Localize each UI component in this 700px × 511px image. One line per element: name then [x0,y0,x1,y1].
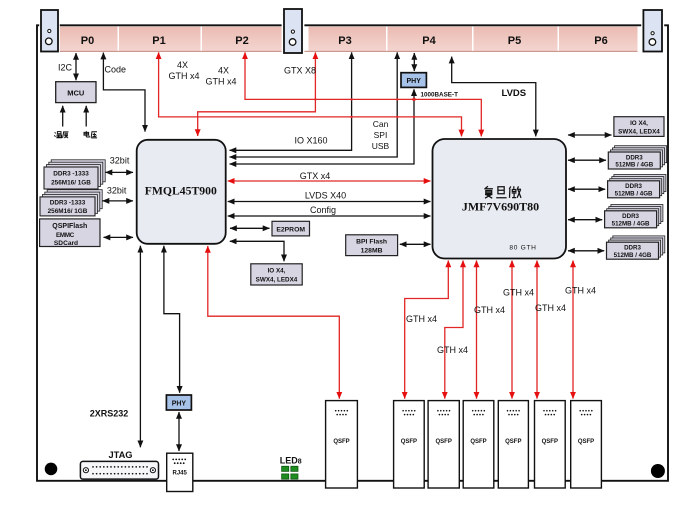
svg-text:EMMC: EMMC [56,232,75,239]
svg-text:GTX X8: GTX X8 [284,66,316,76]
DDR3 bank E stack (right 3) [605,205,663,228]
svg-text:GTH x4: GTH x4 [406,314,437,324]
wire LVDS P4 to JMF [452,57,536,137]
label dianya (voltage) [84,131,97,138]
BPI Flash U5 [346,235,398,256]
svg-text:DDR3: DDR3 [622,213,639,220]
E2PROM U4 [272,221,310,236]
mounting hole bottom-right [651,464,665,478]
svg-text:QSFP: QSFP [505,439,521,445]
svg-text:SWX4, LEDX4: SWX4, LEDX4 [256,276,298,283]
label wendu (temperature) [54,132,68,138]
svg-text:1000BASE-T: 1000BASE-T [421,91,459,98]
svg-text:SDCard: SDCard [54,240,78,247]
svg-text:4X: 4X [218,66,229,76]
svg-text:P6: P6 [594,35,607,47]
svg-text:E2PROM: E2PROM [276,226,305,233]
QSFP cage 4 [463,401,494,488]
svg-text:QSFP: QSFP [436,439,452,445]
DDR3 bank C stack (right 1) [608,146,666,169]
svg-text:QSFP: QSFP [542,439,558,445]
wire GTX X8 P3 to FMQL (red) [198,52,316,136]
svg-text:IO X160: IO X160 [295,136,328,146]
wire IO X160 P3 to FMQL [230,52,352,150]
svg-text:512MB / 4GB: 512MB / 4GB [614,252,652,259]
RJ45 connector [167,453,193,491]
PHY U2 (top) [401,73,426,88]
wire JMF to DDR3 bank F [568,250,604,252]
DDR3 bank A stack [44,160,105,189]
mounting tab connector J1 (top left) [39,8,60,53]
DDR3 bank F stack (right 4) [607,236,665,259]
wire FMQL to PHY2 [164,246,180,393]
wire QSFP5 to JMF (red) [511,261,513,399]
svg-text:512MB / 4GB: 512MB / 4GB [612,220,650,227]
svg-text:P3: P3 [338,35,351,47]
wire JMF to DDR3 bank C [568,159,606,161]
wire JMF to IO/SW/LED block (right) [568,134,612,136]
svg-text:DDR3: DDR3 [625,183,642,190]
svg-text:FMQL45T900: FMQL45T900 [145,185,217,198]
MCU U1 [56,82,96,103]
svg-text:32bit: 32bit [110,156,130,166]
JTAG connector [80,461,158,479]
svg-text:GTH x4: GTH x4 [535,303,566,313]
svg-text:JMF7V690T80: JMF7V690T80 [462,199,539,213]
wire voltage sensor to MCU [85,106,87,127]
mounting tab connector J3 (top right) [641,8,664,53]
svg-text:Config: Config [310,205,336,215]
svg-text:QSFP: QSFP [401,439,417,445]
wire 2XRS232 from FMQL [139,246,141,447]
svg-text:QSFP: QSFP [470,439,486,445]
svg-text:GTH x4: GTH x4 [168,71,199,81]
wire LVDS X40 FMQL-JMF [228,201,431,203]
wire P4 to FMQL [230,52,398,157]
svg-text:IO X4,: IO X4, [268,267,286,274]
wire FMQL to IO/SW/LED block [230,241,284,261]
svg-text:GTH x4: GTH x4 [205,77,236,87]
svg-text:QSPIFlash: QSPIFlash [52,223,87,230]
svg-text:2XRS232: 2XRS232 [90,409,129,419]
connector bar segment P0 [58,27,118,51]
wire temperature sensor to MCU [62,106,64,127]
wire QSFP3 to JMF (red) [445,261,463,399]
junction dots on red nets [314,98,416,118]
svg-text:DDR3 -1333: DDR3 -1333 [50,200,86,207]
svg-text:LVDS X40: LVDS X40 [305,191,346,201]
mounting tab connector J2 (top middle) [282,7,305,55]
wire GTX x4 FMQL-JMF (red) [228,180,431,182]
wire I2C P0-MCU [75,53,77,80]
wire JMF to DDR3 bank D [568,188,605,190]
wire Code P0-FPGA [103,53,145,132]
svg-text:Can: Can [373,119,389,129]
DDR3 bank B stack [40,190,102,216]
svg-text:P4: P4 [422,35,436,47]
connector bar segment P5 [474,27,558,51]
svg-text:DDR3: DDR3 [624,245,641,252]
wire FMQL to E2PROM [230,227,270,229]
svg-text:PHY: PHY [172,401,187,408]
wire P4 to PHY [413,53,415,71]
svg-text:LVDS: LVDS [502,88,527,99]
IO X4 SWX4 LEDX4 block (bottom) [251,264,302,285]
LED bank (4 green LEDs) [282,466,298,479]
svg-text:QSFP: QSFP [578,439,594,445]
svg-text:P5: P5 [508,35,521,47]
connector bar segment P1 [119,27,201,51]
QSFP cage 7 [571,401,602,488]
svg-text:PHY: PHY [406,78,421,85]
wire DDR3 bank B to FMQL [103,200,134,202]
FPGA U6 JMF7V690T80 [433,139,567,259]
svg-text:256M16/ 1GB: 256M16/ 1GB [48,208,88,215]
svg-text:DDR3: DDR3 [626,154,643,161]
wire BPI Flash to JMF [400,243,431,245]
FPGA U3 FMQL45T900 [137,140,226,244]
svg-text:JTAG: JTAG [108,450,132,460]
QSFP cage 5 [498,401,528,488]
connector bar segment P6 [559,27,638,51]
QSPI flash / EMMC / SDCard [40,219,100,247]
svg-text:P1: P1 [152,35,165,47]
svg-text:SWX4, LEDX4: SWX4, LEDX4 [618,129,660,136]
svg-text:P2: P2 [235,35,248,47]
svg-text:DDR3 -1333: DDR3 -1333 [53,171,89,178]
svg-text:GTH x4: GTH x4 [474,305,505,315]
svg-text:128MB: 128MB [361,247,383,254]
wire GTH P2 to JMF (red) [245,52,481,136]
DDR3 bank D stack (right 2) [608,175,666,198]
PHY U7 (bottom) [166,395,191,410]
svg-text:BPI Flash: BPI Flash [356,239,387,246]
wire QSFP6 to JMF (red) [536,261,538,399]
svg-text:512MB / 4GB: 512MB / 4GB [615,190,653,197]
svg-text:Code: Code [105,65,127,75]
svg-text:QSFP: QSFP [333,439,349,445]
connector bar segment P2 [202,27,284,51]
IO X4 SWX4 LEDX4 block (right) [614,117,664,137]
wire QSPI to FMQL [104,236,134,238]
svg-text:GTX x4: GTX x4 [300,171,331,181]
QSFP cage 6 [535,401,566,488]
svg-text:4X: 4X [177,60,188,70]
wire QSFP1 to FMQL (red) [208,246,339,399]
wire Config FMQL-JMF [228,215,431,217]
svg-text:GTH x4: GTH x4 [565,286,596,296]
connector bar segment P4 [388,27,473,51]
mounting hole bottom-left [45,463,58,476]
wire QSFP7 to JMF (red) [572,261,574,399]
svg-text:P0: P0 [81,35,94,47]
svg-text:RJ45: RJ45 [173,471,188,477]
svg-text:80 GTH: 80 GTH [509,244,536,251]
svg-text:512MB / 4GB: 512MB / 4GB [615,162,653,169]
wire QSFP4 to JMF (red) [476,261,478,399]
svg-text:I2C: I2C [58,63,73,73]
wire QSFP2 to JMF (red) [405,261,449,399]
svg-text:32bit: 32bit [107,185,127,195]
svg-text:GTH x4: GTH x4 [437,345,468,355]
QSFP cage 2 [394,401,425,488]
QSFP cage 1 [326,401,358,488]
svg-text:USB: USB [372,141,390,151]
svg-text:GTH x4: GTH x4 [503,288,534,298]
svg-text:MCU: MCU [67,88,84,97]
wire GTH P1 to JMF (red) [159,52,462,136]
svg-text:SPI: SPI [374,130,388,140]
wire PHY2 to RJ45 [178,412,180,451]
bar bottom edge line [58,50,638,52]
QSFP cage 3 [428,401,459,488]
svg-text:IO X4,: IO X4, [630,120,648,127]
svg-text:256M16/ 1GB: 256M16/ 1GB [51,179,91,186]
wire DDR3 bank A to FMQL [106,171,134,173]
connector bar segment P3 [309,27,387,51]
wire JMF to DDR3 bank E [568,219,602,221]
wire PHY to FMQL [230,89,415,164]
